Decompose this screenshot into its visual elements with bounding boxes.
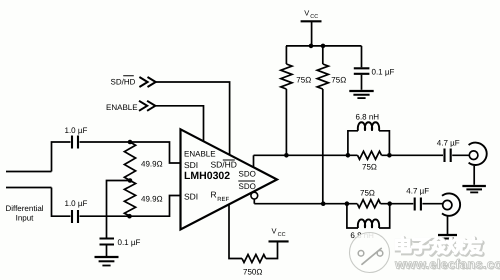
- svg-text:V: V: [304, 9, 309, 18]
- svg-text:Input: Input: [16, 214, 35, 223]
- svg-text:75Ω: 75Ω: [331, 76, 346, 85]
- svg-text:75Ω: 75Ω: [360, 189, 375, 198]
- svg-text:49.9Ω: 49.9Ω: [141, 195, 163, 204]
- svg-text:R: R: [211, 190, 217, 200]
- svg-text:ENABLE: ENABLE: [184, 150, 216, 159]
- svg-text:SDO: SDO: [239, 182, 256, 191]
- svg-text:www.elecfans.com: www.elecfans.com: [394, 257, 500, 272]
- svg-text:REF: REF: [217, 196, 229, 203]
- svg-text:SDI: SDI: [184, 160, 198, 170]
- svg-text:4.7 µF: 4.7 µF: [437, 139, 460, 148]
- svg-text:6.8 nH: 6.8 nH: [356, 113, 380, 122]
- svg-text:49.9Ω: 49.9Ω: [141, 160, 163, 169]
- svg-text:SD/HD: SD/HD: [211, 160, 237, 170]
- svg-text:75Ω: 75Ω: [296, 76, 311, 85]
- svg-text:SDO: SDO: [239, 170, 256, 179]
- svg-text:0.1 µF: 0.1 µF: [372, 68, 395, 77]
- svg-text:LMH0302: LMH0302: [184, 170, 230, 182]
- svg-text:4.7 µF: 4.7 µF: [406, 187, 429, 196]
- svg-text:Differential: Differential: [5, 204, 43, 213]
- svg-text:ENABLE: ENABLE: [106, 103, 138, 112]
- svg-text:75Ω: 75Ω: [362, 163, 377, 172]
- svg-text:SDI: SDI: [184, 192, 198, 202]
- svg-text:SD/HD: SD/HD: [111, 78, 136, 87]
- svg-text:1.0 µF: 1.0 µF: [65, 199, 88, 208]
- svg-text:0.1 µF: 0.1 µF: [118, 238, 141, 247]
- svg-text:750Ω: 750Ω: [243, 268, 262, 277]
- svg-text:CC: CC: [278, 232, 286, 238]
- svg-text:V: V: [272, 226, 277, 235]
- svg-text:CC: CC: [310, 14, 318, 20]
- svg-text:1.0 µF: 1.0 µF: [65, 126, 88, 135]
